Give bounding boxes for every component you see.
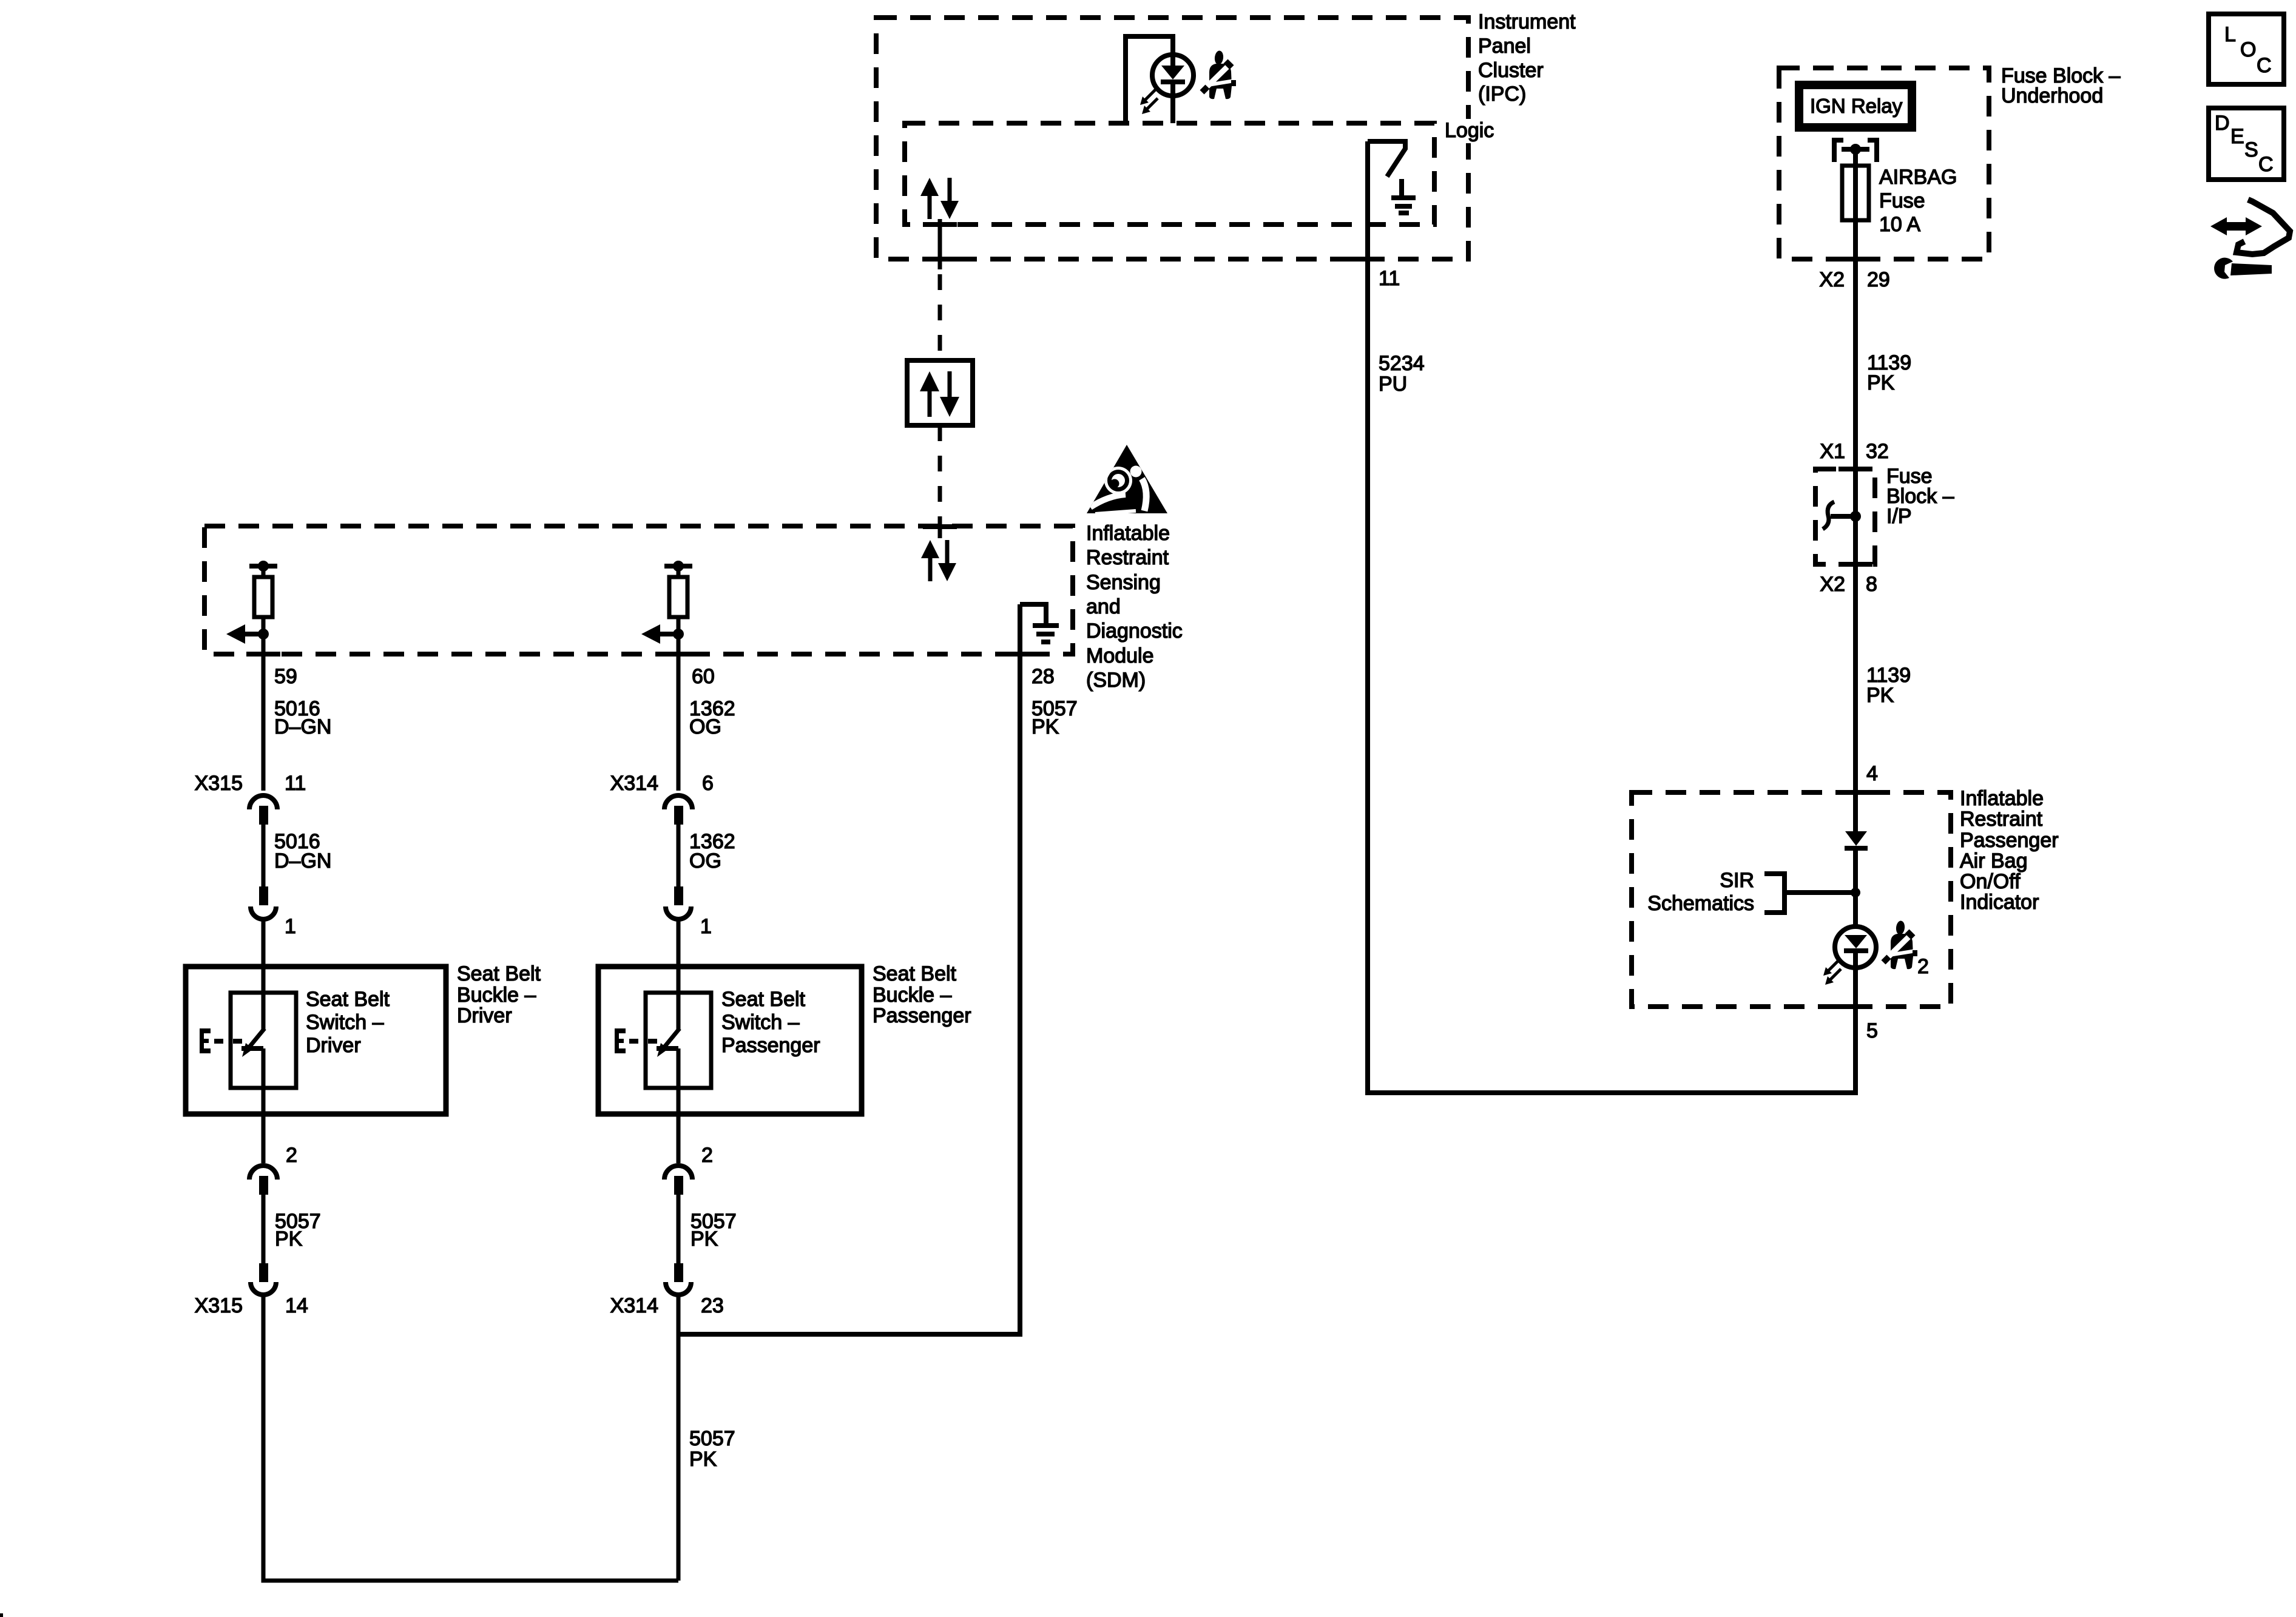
page corner mark xyxy=(0,1613,3,1617)
wire 1362 OG: SDM 60 to X314-6 xyxy=(677,634,681,791)
svg-text:8: 8 xyxy=(1866,573,1877,596)
svg-text:IGN Relay: IGN Relay xyxy=(1810,95,1903,117)
label: 1362 OG (upper) xyxy=(689,697,735,738)
connector X315 pin 11 (in-line) xyxy=(249,795,277,919)
pin 4 xyxy=(1866,762,1878,785)
svg-text:32: 32 xyxy=(1866,440,1889,463)
pin 60 xyxy=(692,665,715,688)
arrow to SDM logic (driver) xyxy=(226,624,269,644)
junction bar and dot (fuse feed) xyxy=(1842,144,1869,166)
LED (passenger air bag indicator) xyxy=(1835,927,1876,1007)
label: 1139 PK (upper) xyxy=(1867,351,1911,394)
label: Seat Belt Buckle - Driver xyxy=(457,962,541,1027)
svg-text:5234: 5234 xyxy=(1379,352,1425,375)
svg-text:X2: X2 xyxy=(1819,268,1845,291)
pin 1 (driver buckle) xyxy=(285,915,296,938)
svg-text:Seat Belt: Seat Belt xyxy=(721,988,806,1011)
wire 1139 PK: I/P block to indicator xyxy=(1853,564,1858,831)
pin X2 29 xyxy=(1819,268,1889,291)
wire 5234 PU: IPC 11 to indicator 5 xyxy=(1368,259,1855,1093)
SIR Schematics bracket xyxy=(1764,874,1860,913)
svg-text:Panel: Panel xyxy=(1478,35,1531,58)
label: 5057 PK (passenger) xyxy=(690,1210,737,1251)
internal junction bar (driver, SDM pin 59) xyxy=(249,561,277,577)
ground (SDM internal, pin 28) xyxy=(1020,604,1059,642)
switch box (passenger) xyxy=(646,993,711,1088)
wire through I/P fuse block xyxy=(1853,469,1858,564)
label: Seat Belt Switch - Driver xyxy=(306,988,390,1057)
svg-text:OG: OG xyxy=(689,849,721,873)
LED light emission arrows (indicator) xyxy=(1823,960,1841,985)
labels: X314 6 xyxy=(610,772,714,795)
label: Inflatable Restraint Passenger Air Bag On/Off Indicator xyxy=(1960,787,2059,914)
module box: Inflatable Restraint Passenger Air Bag On/Off Indicator xyxy=(1632,792,1951,1007)
svg-text:Inflatable: Inflatable xyxy=(1960,787,2044,810)
svg-text:Seat Belt: Seat Belt xyxy=(873,962,957,985)
svg-text:S: S xyxy=(2244,138,2258,161)
svg-text:Schematics: Schematics xyxy=(1647,892,1754,915)
wire 5016 D-GN: SDM 59 to X315-11 xyxy=(262,634,266,791)
svg-text:Passenger: Passenger xyxy=(873,1004,971,1027)
label: Logic xyxy=(1439,119,1500,143)
internal junction bar (passenger, SDM pin 60) xyxy=(664,561,692,577)
svg-text:X315: X315 xyxy=(195,1294,243,1317)
relay: IGN Relay xyxy=(1799,85,1912,127)
svg-text:1: 1 xyxy=(700,915,712,938)
svg-text:I/P: I/P xyxy=(1886,505,1912,528)
labels: X315 14 xyxy=(195,1294,308,1317)
wire: passenger 5057 PK down to bottom junction xyxy=(677,1295,681,1581)
label: 1139 PK (lower) xyxy=(1866,664,1911,707)
label: Fuse Block - Underhood xyxy=(2001,64,2121,107)
svg-text:(SDM): (SDM) xyxy=(1086,669,1146,692)
connector X314 pin 6 (in-line) xyxy=(664,795,692,919)
wire: IPC pin 11 vertical xyxy=(1365,141,1370,259)
E linkage (driver) xyxy=(200,1028,242,1053)
wire: diode to LED xyxy=(1853,851,1858,927)
svg-text:PK: PK xyxy=(1866,684,1894,707)
svg-text:Indicator: Indicator xyxy=(1960,891,2039,914)
resistor (passenger seat belt sense) xyxy=(669,577,687,617)
wire: serial data from IPC logic xyxy=(938,219,942,360)
svg-text:Passenger: Passenger xyxy=(1960,829,2059,852)
diode (indicator feed) xyxy=(1845,831,1868,851)
svg-text:D–GN: D–GN xyxy=(274,715,331,738)
svg-text:X315: X315 xyxy=(195,772,243,795)
svg-text:60: 60 xyxy=(692,665,715,688)
svg-text:Restraint: Restraint xyxy=(1086,546,1169,569)
svg-text:PK: PK xyxy=(1032,715,1059,738)
wire: driver 5057 PK to bottom junction xyxy=(263,1295,678,1581)
svg-text:D: D xyxy=(2215,112,2230,135)
wire 5057 PK: SDM ground to X314-23 branch xyxy=(680,604,1020,1334)
svg-text:X2: X2 xyxy=(1820,573,1845,596)
svg-text:2: 2 xyxy=(286,1144,297,1167)
ground (IPC logic) xyxy=(1391,179,1416,213)
icon: SIR warning triangle xyxy=(1087,445,1167,514)
svg-text:4: 4 xyxy=(1866,762,1878,785)
resistor (driver seat belt sense) xyxy=(254,577,272,617)
wire crossing ticks on dashed borders xyxy=(246,224,1872,1007)
svg-text:PK: PK xyxy=(689,1448,717,1471)
svg-text:AIRBAG: AIRBAG xyxy=(1879,166,1957,189)
svg-text:Air Bag: Air Bag xyxy=(1960,849,2028,873)
svg-text:28: 28 xyxy=(1032,665,1055,688)
svg-text:X314: X314 xyxy=(610,772,658,795)
svg-text:D–GN: D–GN xyxy=(274,849,331,873)
svg-text:Diagnostic: Diagnostic xyxy=(1086,619,1183,643)
svg-text:Logic: Logic xyxy=(1445,119,1494,142)
pin 5 xyxy=(1866,1019,1878,1042)
svg-text:11: 11 xyxy=(285,772,306,795)
module box: Fuse Block - I/P xyxy=(1815,469,1875,564)
pin 1 (passenger buckle) xyxy=(700,915,712,938)
in-line serial data connector box with arrows xyxy=(907,360,973,425)
svg-text:Inflatable: Inflatable xyxy=(1086,522,1170,545)
label: SIR Schematics xyxy=(1647,869,1754,915)
svg-text:Underhood: Underhood xyxy=(2001,84,2103,107)
pin 11 (IPC) xyxy=(1379,267,1400,290)
svg-text:Seat Belt: Seat Belt xyxy=(306,988,390,1011)
component box: Seat Belt Buckle - Passenger xyxy=(598,967,862,1114)
label: 1362 OG (lower) xyxy=(689,830,735,873)
svg-text:X314: X314 xyxy=(610,1294,658,1317)
wire: resistor to junction (driver) xyxy=(262,617,266,634)
icon: seat belt telltale (IPC) xyxy=(1202,50,1236,99)
module box: SDM xyxy=(204,526,1073,654)
wire: LED branch loop xyxy=(1126,36,1173,123)
module box: Logic xyxy=(905,123,1434,224)
wire: serial data to SDM xyxy=(938,425,942,527)
svg-text:Buckle –: Buckle – xyxy=(873,984,951,1007)
component box: Seat Belt Buckle - Driver xyxy=(186,967,446,1114)
svg-text:Cluster: Cluster xyxy=(1478,59,1544,82)
svg-text:5: 5 xyxy=(1866,1019,1878,1042)
labels: X315 11 xyxy=(195,772,306,795)
switch: seat belt switch driver xyxy=(241,1028,265,1163)
labels: X314 23 xyxy=(610,1294,724,1317)
svg-text:29: 29 xyxy=(1867,268,1890,291)
svg-text:2: 2 xyxy=(1917,955,1929,978)
svg-text:Driver: Driver xyxy=(306,1034,361,1057)
svg-text:O: O xyxy=(2240,38,2256,61)
label: 5057 PK (SDM drop) xyxy=(1032,697,1078,738)
fuse F: AIRBAG Fuse 10 A xyxy=(1842,166,1869,220)
svg-text:PK: PK xyxy=(275,1227,303,1251)
icon: seat belt telltale 2 (indicator) xyxy=(1883,920,1929,978)
svg-text:6: 6 xyxy=(702,772,714,795)
svg-text:Driver: Driver xyxy=(457,1004,512,1027)
svg-text:and: and xyxy=(1086,595,1121,618)
LED light emission arrows xyxy=(1140,89,1158,114)
svg-text:14: 14 xyxy=(285,1294,308,1317)
switch box (driver) xyxy=(231,993,296,1088)
label: 5234 PU xyxy=(1379,352,1425,396)
svg-text:E: E xyxy=(2230,125,2244,148)
icon: LOC box xyxy=(2209,14,2284,84)
svg-text:Sensing: Sensing xyxy=(1086,571,1161,594)
wire: X315-11 to driver switch xyxy=(262,919,266,1030)
svg-text:Buckle –: Buckle – xyxy=(457,984,536,1007)
svg-text:PK: PK xyxy=(1867,371,1895,394)
svg-text:10 A: 10 A xyxy=(1879,213,1920,236)
svg-text:59: 59 xyxy=(274,665,297,688)
svg-text:X1: X1 xyxy=(1820,440,1845,463)
wire: X314-6 to passenger switch xyxy=(677,919,681,1030)
svg-text:L: L xyxy=(2224,23,2236,46)
svg-text:Instrument: Instrument xyxy=(1478,10,1576,33)
svg-text:C: C xyxy=(2257,54,2272,77)
pin 28 xyxy=(1032,665,1055,688)
label: AIRBAG Fuse 10 A xyxy=(1879,166,1957,236)
svg-text:(IPC): (IPC) xyxy=(1478,83,1526,106)
svg-text:Passenger: Passenger xyxy=(721,1034,820,1057)
svg-text:23: 23 xyxy=(701,1294,724,1317)
svg-text:1: 1 xyxy=(285,915,296,938)
arrow to SDM logic (passenger) xyxy=(641,624,684,644)
logic switch (IPC) xyxy=(1368,141,1405,177)
svg-text:Switch –: Switch – xyxy=(721,1011,800,1034)
circuit breaker (I/P fuse block) xyxy=(1823,502,1861,529)
pin 2 (driver buckle) xyxy=(286,1144,297,1167)
svg-text:Module: Module xyxy=(1086,644,1154,667)
svg-text:Switch –: Switch – xyxy=(306,1011,384,1034)
svg-text:PU: PU xyxy=(1379,373,1407,396)
connector X314 pin 23 (in-line) xyxy=(664,1166,692,1295)
E linkage (passenger) xyxy=(615,1028,657,1053)
connector X315 pin 14 (in-line) xyxy=(249,1166,277,1295)
label: 5057 PK (driver) xyxy=(275,1210,321,1251)
pin X2 8 xyxy=(1820,573,1877,596)
pin 59 xyxy=(274,665,297,688)
wire: serial data stub inside SDM xyxy=(938,517,942,538)
serial data arrows (SDM) xyxy=(921,540,956,581)
label: 5016 D-GN (lower) xyxy=(274,830,331,873)
svg-text:11: 11 xyxy=(1379,267,1400,290)
icon: swap arrow with component outline and wrench xyxy=(2210,200,2290,279)
svg-text:OG: OG xyxy=(689,715,721,738)
svg-text:PK: PK xyxy=(690,1227,718,1251)
wire: resistor to junction (passenger) xyxy=(677,617,681,634)
svg-text:On/Off: On/Off xyxy=(1960,870,2021,893)
module box: Instrument Panel Cluster (IPC) xyxy=(876,18,1468,259)
label: Seat Belt Buckle - Passenger xyxy=(873,962,971,1027)
icon: DESC box xyxy=(2209,108,2284,180)
indicator LED (IPC seat belt lamp) xyxy=(1152,55,1194,123)
svg-text:Fuse: Fuse xyxy=(1879,189,1925,212)
wire 1139 PK: fuse to Fuse Block I/P xyxy=(1853,220,1858,469)
label: Seat Belt Switch - Passenger xyxy=(721,988,820,1057)
label: 5057 PK (bottom run) xyxy=(689,1427,735,1471)
switch: seat belt switch passenger xyxy=(657,1028,680,1163)
fuse holder clips xyxy=(1834,140,1877,162)
svg-text:SIR: SIR xyxy=(1720,869,1754,892)
module box: Fuse Block - Underhood xyxy=(1779,68,1989,259)
label: Inflatable Restraint Sensing and Diagnostic Module (SDM) xyxy=(1086,522,1183,692)
svg-text:Seat Belt: Seat Belt xyxy=(457,962,541,985)
svg-text:5057: 5057 xyxy=(689,1427,735,1450)
serial data arrows (IPC logic) xyxy=(920,178,959,219)
label: 5016 D-GN (upper) xyxy=(274,697,331,738)
svg-text:2: 2 xyxy=(701,1144,713,1167)
label: Fuse Block - I/P xyxy=(1886,465,1954,528)
svg-text:Restraint: Restraint xyxy=(1960,808,2043,831)
pin X1 32 xyxy=(1820,440,1888,463)
label: Instrument Panel Cluster (IPC) xyxy=(1478,10,1576,106)
pin 2 (passenger buckle) xyxy=(701,1144,713,1167)
svg-text:C: C xyxy=(2258,153,2274,176)
